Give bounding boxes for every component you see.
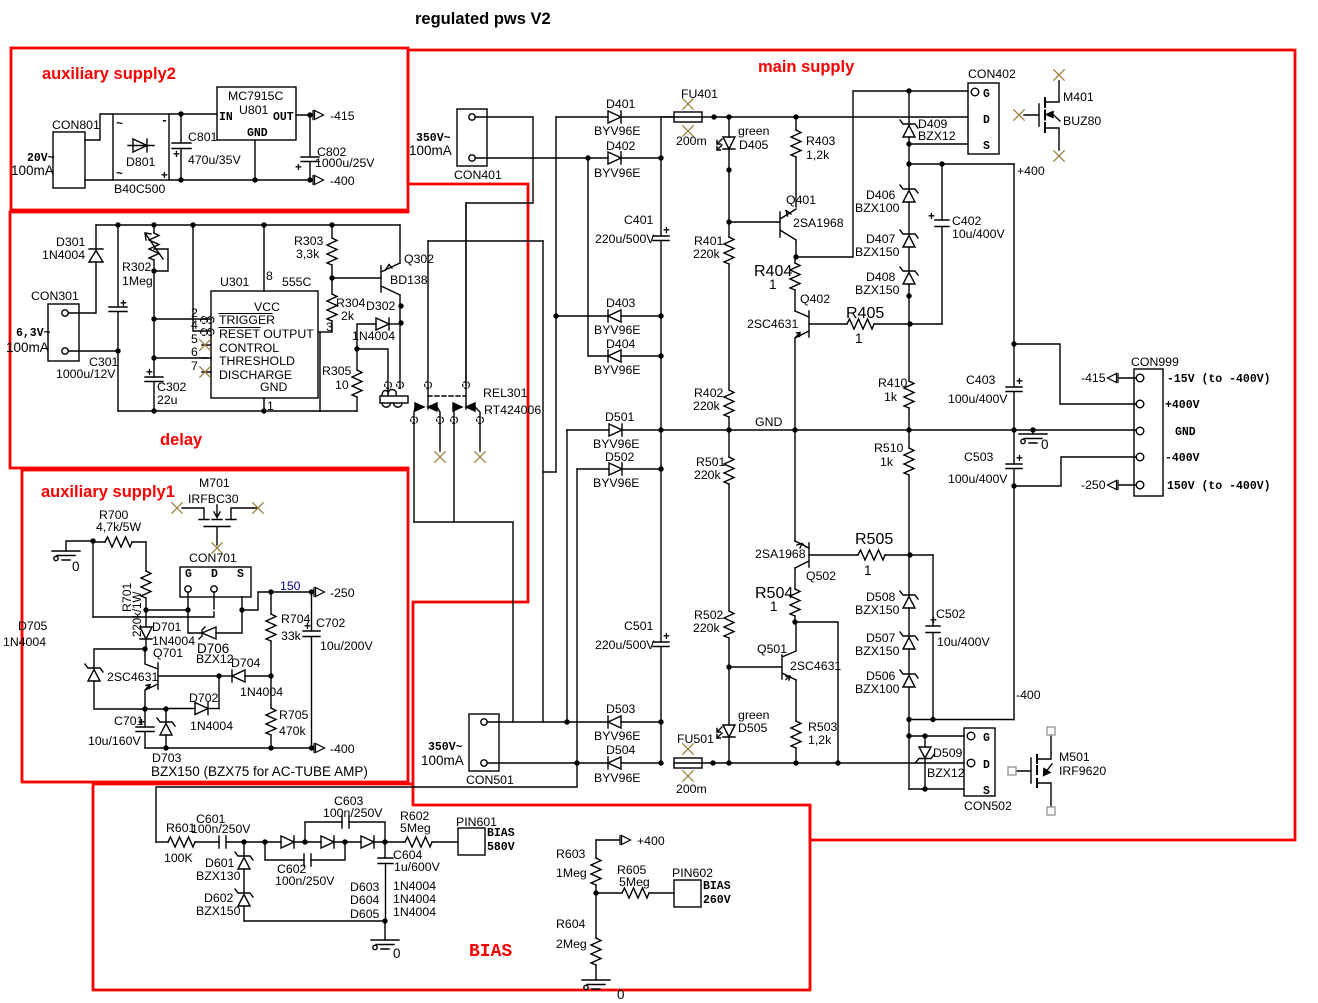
xx marks pins2,4 bbox=[201, 317, 208, 324]
connector CON501 bbox=[469, 714, 499, 771]
wire U801 GND pin down bbox=[254, 140, 256, 180]
zener D706 bbox=[199, 627, 216, 639]
svg-text:220u/500V: 220u/500V bbox=[595, 638, 655, 652]
bridge rectifier D801 box bbox=[113, 114, 169, 180]
resistor R501 bbox=[724, 457, 734, 484]
svg-text:REL301: REL301 bbox=[483, 386, 528, 400]
svg-text:100mA: 100mA bbox=[409, 143, 452, 158]
svg-text:D: D bbox=[211, 568, 218, 581]
svg-text:G: G bbox=[983, 732, 990, 745]
svg-text:S: S bbox=[983, 140, 990, 153]
svg-text:580V: 580V bbox=[487, 841, 515, 854]
X marks M401 bbox=[1054, 70, 1064, 80]
svg-text:R402: R402 bbox=[694, 386, 724, 400]
diode D402 bbox=[588, 157, 608, 159]
svg-text:D404: D404 bbox=[606, 337, 636, 351]
svg-text:R302: R302 bbox=[122, 260, 152, 274]
diode inside D801 bbox=[128, 139, 154, 152]
resistor R601 bbox=[156, 841, 168, 843]
svg-text:0: 0 bbox=[1041, 437, 1049, 452]
wire CON301 bottom pin bbox=[69, 350, 118, 352]
svg-text:S: S bbox=[983, 785, 990, 798]
svg-text:Q701: Q701 bbox=[153, 646, 183, 660]
svg-text:R501: R501 bbox=[696, 455, 726, 469]
svg-text:100mA: 100mA bbox=[11, 163, 54, 178]
connector CON999 bbox=[1134, 369, 1163, 496]
svg-text:1N4004: 1N4004 bbox=[190, 719, 233, 733]
svg-text:+: + bbox=[663, 631, 670, 644]
svg-text:+400V: +400V bbox=[1165, 399, 1200, 412]
wire D302 junction to relay coil bbox=[357, 349, 388, 395]
svg-text:220k: 220k bbox=[694, 468, 722, 482]
svg-text:1k: 1k bbox=[884, 390, 898, 404]
svg-text:5Meg: 5Meg bbox=[619, 875, 650, 889]
svg-text:R403: R403 bbox=[806, 134, 836, 148]
wire Q502 base to R505 bbox=[809, 554, 858, 556]
wire CON801 top pin to bridge bbox=[85, 114, 113, 140]
output arrow -400 bbox=[313, 176, 324, 185]
resistor R605 bbox=[596, 892, 622, 894]
resistor R705 bbox=[270, 676, 272, 708]
ground bias2 bbox=[582, 980, 610, 990]
wire -400 bottom rail bbox=[909, 719, 1014, 721]
resistor R402 bbox=[724, 390, 734, 417]
svg-text:delay: delay bbox=[160, 431, 203, 449]
wire CON501 bottom line bbox=[487, 762, 608, 764]
wire main bias line bbox=[244, 841, 281, 843]
wire G pin down bbox=[188, 592, 202, 633]
wire Q302 emitter bbox=[399, 225, 401, 263]
wire R700 to R701 bbox=[145, 542, 147, 571]
diode D702 bbox=[166, 708, 195, 710]
svg-text:BUZ80: BUZ80 bbox=[1063, 114, 1101, 128]
svg-text:150: 150 bbox=[280, 579, 301, 593]
svg-text:1N4004: 1N4004 bbox=[42, 248, 85, 262]
fuse FU501 bbox=[674, 758, 702, 768]
svg-text:R505: R505 bbox=[855, 531, 893, 548]
svg-text:BYV96E: BYV96E bbox=[594, 166, 641, 180]
svg-text:IRF9620: IRF9620 bbox=[1059, 764, 1106, 778]
svg-text:2SC4631: 2SC4631 bbox=[790, 659, 841, 673]
svg-text:BD138: BD138 bbox=[390, 273, 428, 287]
wire Q502 emitter bbox=[794, 430, 796, 541]
wire CON401 bottom to D402 bbox=[475, 157, 588, 159]
transistor Q402 2SC4631 bbox=[795, 311, 809, 338]
svg-text:green: green bbox=[738, 124, 770, 138]
svg-text:D603: D603 bbox=[350, 880, 380, 894]
svg-text:22u: 22u bbox=[157, 393, 178, 407]
svg-text:33k: 33k bbox=[281, 629, 302, 643]
arrow +400 bbox=[620, 836, 631, 845]
relay contact 2 bbox=[465, 203, 467, 409]
pin PIN602 bbox=[674, 880, 701, 907]
svg-text:8: 8 bbox=[266, 269, 273, 283]
diode DD3 bbox=[361, 836, 374, 848]
svg-text:CON801: CON801 bbox=[52, 118, 100, 132]
svg-text:260V: 260V bbox=[703, 894, 731, 907]
svg-text:C502: C502 bbox=[936, 607, 966, 621]
resistor R604 bbox=[595, 893, 597, 938]
svg-text:1: 1 bbox=[769, 277, 777, 292]
svg-text:MC7915C: MC7915C bbox=[228, 89, 283, 103]
wire RESET tie bbox=[193, 225, 202, 331]
capacitor C603 loop bbox=[305, 822, 342, 842]
wire D pin upper bbox=[213, 592, 215, 609]
svg-text:D402: D402 bbox=[606, 139, 636, 153]
wire R303 to Q302 base bbox=[332, 277, 381, 279]
wire Q401C to CON402 G bbox=[796, 91, 968, 257]
svg-text:Q402: Q402 bbox=[800, 292, 830, 306]
wire S to 150 node bbox=[242, 592, 271, 610]
svg-text:RESET OUTPUT: RESET OUTPUT bbox=[219, 327, 314, 341]
svg-text:M401: M401 bbox=[1063, 90, 1094, 104]
svg-text:R604: R604 bbox=[556, 917, 586, 931]
svg-text:BZX12: BZX12 bbox=[918, 129, 956, 143]
svg-text:470u/35V: 470u/35V bbox=[188, 153, 241, 167]
svg-text:-400: -400 bbox=[330, 174, 355, 188]
wire x909 down bbox=[908, 720, 910, 790]
svg-text:CON502: CON502 bbox=[964, 799, 1012, 813]
svg-text:-250: -250 bbox=[1081, 478, 1106, 492]
zener D407 bbox=[900, 230, 918, 247]
zener D507 bbox=[900, 632, 918, 649]
svg-text:CON501: CON501 bbox=[466, 773, 514, 787]
svg-text:R705: R705 bbox=[279, 708, 309, 722]
svg-text:Q501: Q501 bbox=[757, 642, 787, 656]
zener D406 bbox=[908, 164, 910, 189]
svg-text:D604: D604 bbox=[350, 893, 380, 907]
relay contact dashed link bbox=[428, 395, 466, 397]
svg-text:3: 3 bbox=[326, 320, 333, 334]
X marks M701 bbox=[172, 503, 182, 513]
svg-text:U801: U801 bbox=[239, 103, 269, 117]
connector CON402 bbox=[968, 83, 999, 154]
svg-text:BZX150: BZX150 bbox=[855, 245, 900, 259]
diode DD2 bbox=[321, 836, 334, 848]
svg-text:BIAS: BIAS bbox=[703, 880, 731, 893]
svg-text:OUT: OUT bbox=[273, 111, 294, 124]
svg-text:C702: C702 bbox=[316, 616, 346, 630]
svg-text:1: 1 bbox=[864, 563, 872, 578]
svg-text:D407: D407 bbox=[866, 232, 896, 246]
wire Q501 emitter to R503 bbox=[795, 680, 797, 721]
resistor R410 bbox=[904, 381, 914, 408]
svg-text:+: + bbox=[1016, 453, 1023, 466]
svg-text:FU501: FU501 bbox=[677, 732, 714, 746]
svg-text:1: 1 bbox=[267, 399, 274, 413]
wire bridge bottom rail bbox=[169, 179, 310, 181]
svg-text:D301: D301 bbox=[56, 235, 86, 249]
wire D502 net down to BIAS feed bbox=[156, 763, 577, 842]
svg-text:GND: GND bbox=[260, 380, 287, 394]
svg-text:6: 6 bbox=[191, 345, 198, 359]
svg-text:M501: M501 bbox=[1059, 750, 1090, 764]
svg-text:100u/400V: 100u/400V bbox=[948, 392, 1008, 406]
svg-text:C503: C503 bbox=[964, 450, 994, 464]
zener D703 bbox=[165, 709, 167, 722]
svg-text:R401: R401 bbox=[694, 234, 724, 248]
transistor Q502 2SA1968 bbox=[795, 541, 809, 568]
resistor R701 bbox=[141, 571, 151, 598]
wire Q401 collector bbox=[795, 240, 797, 257]
svg-text:Q401: Q401 bbox=[786, 193, 816, 207]
svg-text:BYV96E: BYV96E bbox=[593, 476, 640, 490]
wire D501 anode vertical bbox=[566, 430, 568, 722]
svg-text:-400: -400 bbox=[330, 742, 355, 756]
svg-text:R405: R405 bbox=[846, 305, 884, 322]
capacitor C702 bbox=[303, 592, 320, 748]
wire -250 arrow bbox=[1119, 484, 1136, 486]
svg-text:C302: C302 bbox=[157, 380, 187, 394]
wire Q502 collector to R504 bbox=[794, 568, 796, 589]
diode D403 bbox=[556, 315, 608, 317]
svg-text:100n/250V: 100n/250V bbox=[191, 822, 251, 836]
svg-text:100n/250V: 100n/250V bbox=[275, 874, 335, 888]
transistor Q501 2SC4631 bbox=[782, 651, 796, 680]
wire base node down to D702 bbox=[218, 676, 220, 709]
wire S pin bbox=[241, 597, 243, 610]
relay contact 1 bbox=[427, 241, 429, 409]
diode D502 bbox=[577, 468, 609, 470]
svg-text:IRFBC30: IRFBC30 bbox=[188, 492, 239, 506]
svg-text:C402: C402 bbox=[952, 214, 982, 228]
pin PIN601 bbox=[458, 828, 485, 855]
diode D302 bbox=[357, 324, 376, 349]
svg-text:1,2k: 1,2k bbox=[808, 733, 832, 747]
diode D503 bbox=[608, 716, 621, 728]
wire D602 bottom to gnd node bbox=[244, 920, 385, 922]
red box: main supply bbox=[408, 50, 1295, 840]
svg-text:C501: C501 bbox=[624, 619, 654, 633]
svg-text:G: G bbox=[185, 568, 192, 581]
svg-text:D505: D505 bbox=[738, 721, 768, 735]
wire bridge top to U801 IN bbox=[169, 113, 217, 115]
svg-text:470k: 470k bbox=[279, 724, 307, 738]
zener D602 bbox=[235, 889, 253, 906]
wire gnd to R700 bbox=[66, 541, 93, 551]
wire D502 anode vertical bbox=[576, 469, 578, 763]
svg-text:BZX12: BZX12 bbox=[927, 766, 965, 780]
wire -400V pin jog bbox=[1014, 457, 1136, 486]
svg-text:+: + bbox=[1016, 376, 1023, 389]
svg-text:2SA1968: 2SA1968 bbox=[755, 547, 806, 561]
svg-text:D503: D503 bbox=[606, 702, 636, 716]
wire +400V pin jog bbox=[1014, 344, 1136, 404]
wire CON502 S bbox=[909, 788, 964, 790]
zener D506 bbox=[900, 670, 918, 687]
svg-text:BZX150 (BZX75 for AC-TUBE AMP): BZX150 (BZX75 for AC-TUBE AMP) bbox=[151, 764, 368, 779]
svg-text:D703: D703 bbox=[152, 751, 182, 765]
svg-text:150V (to -400V): 150V (to -400V) bbox=[1167, 480, 1271, 493]
capacitor C601 bbox=[219, 836, 244, 848]
diode D701 bbox=[145, 610, 147, 627]
svg-text:B40C500: B40C500 bbox=[114, 182, 165, 196]
svg-text:BYV96E: BYV96E bbox=[594, 124, 641, 138]
svg-text:G: G bbox=[983, 88, 990, 101]
svg-text:GND: GND bbox=[1175, 426, 1196, 439]
svg-text:-250: -250 bbox=[330, 586, 355, 600]
wire U801 OUT bbox=[296, 114, 313, 116]
svg-text:D501: D501 bbox=[605, 410, 635, 424]
svg-text:BZX150: BZX150 bbox=[855, 644, 900, 658]
wire D301 top bbox=[95, 225, 97, 249]
svg-text:2SA1968: 2SA1968 bbox=[793, 216, 844, 230]
regulator U801 box bbox=[217, 87, 296, 140]
fuse FU401 bbox=[661, 116, 674, 118]
svg-text:GND: GND bbox=[755, 415, 782, 429]
diode D404 bbox=[588, 158, 608, 356]
output arrow -400 aux1 bbox=[314, 744, 325, 753]
svg-text:220k: 220k bbox=[693, 247, 721, 261]
svg-text:100mA: 100mA bbox=[6, 340, 49, 355]
wire fuse501 rail to CON502 D bbox=[702, 762, 964, 764]
svg-text:1,2k: 1,2k bbox=[806, 148, 830, 162]
relay REL301 coil bbox=[380, 396, 408, 403]
svg-text:C401: C401 bbox=[624, 213, 654, 227]
wire C701 top rail bbox=[145, 708, 166, 710]
svg-text:200m: 200m bbox=[676, 782, 707, 796]
svg-text:M701: M701 bbox=[199, 476, 230, 490]
wire CON502 G bbox=[909, 735, 964, 737]
svg-text:D602: D602 bbox=[204, 891, 234, 905]
svg-text:-400: -400 bbox=[1016, 688, 1041, 702]
capacitor C302 bbox=[145, 377, 163, 411]
junction dots aux1 bbox=[90, 538, 314, 750]
capacitor C403 bbox=[1006, 387, 1022, 464]
diode D501 bbox=[567, 429, 609, 431]
svg-text:D605: D605 bbox=[350, 907, 380, 921]
svg-text:1N4004: 1N4004 bbox=[393, 879, 436, 893]
wire 150 node bbox=[271, 591, 313, 593]
svg-text:S: S bbox=[237, 568, 244, 581]
svg-text:BZX130: BZX130 bbox=[196, 869, 241, 883]
svg-text:+: + bbox=[173, 149, 180, 162]
ground bias1 bbox=[371, 940, 399, 950]
svg-text:BZX12: BZX12 bbox=[196, 652, 234, 666]
capacitor C402 bbox=[941, 164, 943, 220]
svg-text:CON401: CON401 bbox=[454, 168, 502, 182]
resistor R700 bbox=[105, 537, 132, 547]
wire CON501 top line bbox=[487, 721, 608, 723]
wire G net horizontal bbox=[146, 609, 188, 611]
svg-text:VCC: VCC bbox=[254, 300, 280, 314]
connector CON301 bbox=[48, 304, 79, 361]
svg-text:+400: +400 bbox=[1017, 164, 1045, 178]
svg-text:RT424006: RT424006 bbox=[484, 403, 541, 417]
wire Q501 collector bbox=[795, 622, 797, 651]
wire gnd stem bbox=[384, 921, 386, 940]
svg-text:GND: GND bbox=[247, 127, 268, 140]
svg-text:-415: -415 bbox=[330, 109, 355, 123]
potentiometer R302 bbox=[149, 233, 159, 260]
svg-text:-415: -415 bbox=[1081, 371, 1106, 385]
svg-text:10u/200V: 10u/200V bbox=[320, 639, 373, 653]
svg-text:-: - bbox=[161, 115, 168, 128]
LED D405 bbox=[728, 117, 730, 137]
svg-text:BYV96E: BYV96E bbox=[594, 363, 641, 377]
svg-text:R305: R305 bbox=[322, 364, 352, 378]
LED D505 bbox=[728, 667, 730, 725]
svg-text:100mA: 100mA bbox=[421, 753, 464, 768]
wire Q302 collector down bbox=[399, 295, 401, 388]
connector CON801 bbox=[53, 132, 85, 188]
svg-text:Q502: Q502 bbox=[806, 569, 836, 583]
diode D301 bbox=[89, 249, 103, 262]
resistor R405 bbox=[847, 319, 874, 329]
transistor Q701 bbox=[145, 649, 158, 709]
wire Q701 base bbox=[158, 675, 219, 677]
svg-text:~: ~ bbox=[116, 168, 123, 181]
svg-text:555C: 555C bbox=[282, 275, 312, 289]
capacitor C401 bbox=[653, 236, 669, 642]
wire S pin CON402 bbox=[909, 143, 968, 145]
svg-text:10u/400V: 10u/400V bbox=[937, 635, 990, 649]
resistor R403 bbox=[795, 117, 797, 130]
pin stubs 2,4,5,6,7 bbox=[202, 319, 211, 372]
svg-text:BIAS: BIAS bbox=[487, 827, 515, 840]
wire top rail delay bbox=[96, 224, 400, 226]
grey squares M501 bbox=[1008, 727, 1055, 815]
svg-text:100n/250V: 100n/250V bbox=[323, 806, 383, 820]
svg-text:D509: D509 bbox=[933, 746, 963, 760]
svg-text:4,7k/5W: 4,7k/5W bbox=[96, 520, 141, 534]
svg-text:-400V: -400V bbox=[1165, 452, 1200, 465]
svg-text:5Meg: 5Meg bbox=[400, 821, 431, 835]
svg-text:1u/600V: 1u/600V bbox=[394, 860, 441, 874]
resistor R401 bbox=[724, 237, 734, 264]
resistor R504 bbox=[790, 589, 800, 616]
wire pin3 down to rail bbox=[319, 332, 321, 411]
pin 8 wire bbox=[263, 225, 265, 291]
wire relay contact1 top feed bbox=[428, 240, 543, 242]
arrow -250 bbox=[1108, 481, 1119, 490]
svg-text:0: 0 bbox=[617, 987, 625, 1002]
wire GND rail bbox=[622, 429, 1136, 431]
ground aux1 bbox=[52, 551, 80, 561]
svg-text:Q302: Q302 bbox=[404, 252, 434, 266]
svg-text:main supply: main supply bbox=[758, 58, 855, 76]
resistor R305 bbox=[352, 370, 362, 397]
svg-text:BIAS: BIAS bbox=[469, 942, 512, 962]
svg-text:100u/400V: 100u/400V bbox=[948, 472, 1008, 486]
red box: delay bbox=[10, 212, 408, 468]
svg-text:+: + bbox=[930, 615, 937, 628]
svg-text:D705: D705 bbox=[18, 619, 48, 633]
svg-text:R303: R303 bbox=[294, 234, 324, 248]
svg-text:~: ~ bbox=[116, 118, 123, 131]
xx marks relay bbox=[385, 382, 392, 389]
svg-text:+: + bbox=[146, 367, 153, 380]
svg-text:1N4004: 1N4004 bbox=[393, 892, 436, 906]
resistor R404 bbox=[790, 263, 800, 290]
wire +400 arrow feed bbox=[596, 839, 619, 841]
wire D701 to D705 bbox=[94, 649, 146, 668]
svg-text:BZX150: BZX150 bbox=[196, 904, 241, 918]
wire D301 to CON301 bbox=[69, 262, 96, 313]
svg-text:BYV96E: BYV96E bbox=[593, 437, 640, 451]
svg-text:D406: D406 bbox=[866, 188, 896, 202]
svg-text:D506: D506 bbox=[866, 669, 896, 683]
svg-text:D403: D403 bbox=[606, 296, 636, 310]
red box: BIAS bbox=[93, 784, 810, 990]
arrow -415 bbox=[1108, 374, 1119, 383]
wire Q501 base bbox=[729, 666, 781, 668]
+400 bus vertical bbox=[1013, 164, 1015, 386]
svg-text:D601: D601 bbox=[205, 856, 235, 870]
svg-text:D405: D405 bbox=[739, 138, 769, 152]
svg-text:220u/500V: 220u/500V bbox=[595, 232, 655, 246]
zener D509 bbox=[924, 736, 926, 747]
